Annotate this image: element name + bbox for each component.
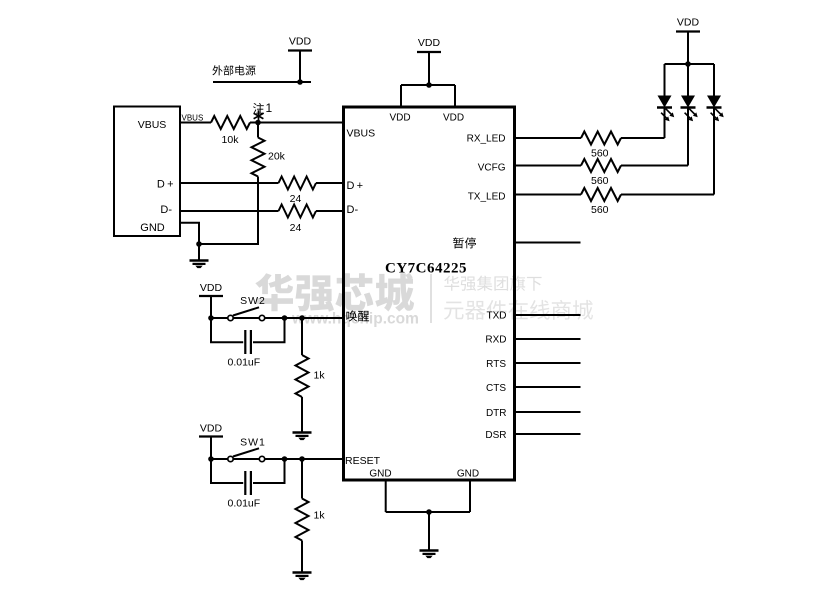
junction VDD/SW1 (208, 456, 214, 462)
note marker 注1 (253, 103, 264, 114)
wire reset net (211, 458, 344, 460)
wire cathode D2 (687, 108, 689, 166)
junction reset/R 1k (299, 456, 305, 462)
label 唤醒 (wake) pin (346, 310, 369, 321)
svg-text:VDD: VDD (200, 282, 223, 294)
svg-text:VDD: VDD (389, 113, 410, 124)
svg-text:VDD: VDD (677, 17, 700, 29)
svg-text:VBUS: VBUS (347, 128, 376, 140)
svg-text:TX_LED: TX_LED (468, 192, 506, 203)
svg-text:D-: D- (160, 204, 172, 216)
resistor R 24 (D+) (279, 177, 317, 190)
wire TXD stub (515, 314, 581, 316)
wire D+ to U1 (316, 182, 344, 184)
resistor R 20k (257, 123, 259, 138)
svg-text:VDD: VDD (289, 36, 312, 48)
LED D2 (681, 96, 695, 108)
wire GND pin 1 (385, 480, 387, 512)
junction ground node (196, 241, 202, 247)
svg-text:RTS: RTS (486, 359, 506, 370)
ground (U1) (420, 549, 439, 551)
svg-text:D-: D- (347, 204, 359, 216)
svg-text:0.01uF: 0.01uF (228, 498, 261, 510)
wire VCFG to R2 (515, 165, 582, 167)
wire wake net (211, 317, 344, 319)
svg-text:24: 24 (290, 222, 302, 234)
svg-text:20k: 20k (268, 151, 286, 163)
junction external rail / VDD (297, 79, 303, 85)
LED D3 (707, 96, 721, 108)
resistor R 560 (TX_LED) (581, 188, 621, 201)
power symbol VDD (SW2) (199, 295, 223, 297)
svg-text:CY7C64225: CY7C64225 (385, 261, 467, 277)
wire TX_LED to R3 (515, 194, 582, 196)
label 外部电源 (external power) (212, 65, 255, 75)
power symbol VDD (external supply) (288, 49, 312, 51)
capacitor C1 0.01uF (211, 318, 243, 342)
ground (SW2) (293, 431, 312, 433)
svg-text:VCFG: VCFG (478, 163, 506, 174)
svg-text:0.01uF: 0.01uF (228, 357, 261, 369)
svg-text:CTS: CTS (486, 383, 506, 394)
resistor R 24 (D-) (279, 205, 317, 218)
wire cathode D1 (664, 108, 666, 139)
wire cathode D3 (713, 108, 715, 195)
svg-text:1k: 1k (314, 510, 326, 522)
ground (J1) (190, 259, 209, 261)
wire RXD stub (515, 338, 581, 340)
wire R2 to D2 (621, 165, 688, 167)
svg-text:VDD: VDD (200, 423, 223, 435)
svg-text:TXD: TXD (487, 310, 507, 321)
svg-text:SW1: SW1 (240, 437, 266, 449)
capacitor C2 0.01uF (211, 459, 243, 483)
connector J1 (USB: VBUS/D+/D-/GND) (114, 107, 180, 237)
wire external power rail (213, 81, 311, 83)
svg-text:D +: D + (347, 180, 364, 192)
svg-text:VDD: VDD (418, 37, 441, 49)
junction GND (426, 509, 432, 515)
svg-text:D +: D + (157, 179, 174, 191)
wire CTS stub (515, 386, 581, 388)
svg-text:RESET: RESET (345, 455, 381, 467)
svg-text:10k: 10k (222, 134, 240, 146)
resistor R 560 (VCFG) (581, 159, 621, 172)
junction SW2 right (282, 315, 288, 321)
resistor R 560 (RX_LED) (581, 132, 621, 145)
svg-text:560: 560 (591, 204, 609, 216)
wire J1 GND (180, 223, 199, 244)
LED D1 (658, 96, 672, 108)
junction wake/R 1k (299, 315, 305, 321)
wire D- to U1 (316, 210, 344, 212)
wire VDD rail to U1 pins (401, 84, 455, 86)
wire anode D3 (713, 64, 715, 96)
wire LED anode rail (665, 63, 715, 65)
wire anode D2 (687, 64, 689, 96)
label 暂停 (suspend) pin (453, 237, 476, 248)
wire 1k to ground (301, 397, 303, 432)
switch SW2 (228, 315, 233, 320)
wire VBUS from J1 to R 10k (180, 122, 211, 124)
svg-text:DSR: DSR (485, 430, 506, 441)
ground (SW1) (293, 571, 312, 573)
power symbol VDD (LEDs) (676, 30, 700, 32)
wire D+ from J1 (180, 182, 279, 184)
IC U1 CY7C64225 (344, 107, 515, 480)
svg-text:560: 560 (591, 148, 609, 160)
wire RX_LED to R1 (515, 137, 582, 139)
junction LED rail (685, 61, 691, 67)
junction VDD/SW2 (208, 315, 214, 321)
svg-text:24: 24 (290, 193, 302, 205)
svg-text:GND: GND (140, 222, 165, 234)
wire GND join (386, 511, 470, 513)
wire 20k to ground rail (199, 177, 258, 245)
resistor R 10k (211, 116, 250, 129)
wire GND pin 2 (469, 480, 471, 512)
svg-text:GND: GND (457, 469, 479, 480)
wire DTR stub (515, 411, 581, 413)
svg-text:1: 1 (266, 101, 273, 115)
svg-text:560: 560 (591, 175, 609, 187)
svg-text:RX_LED: RX_LED (467, 134, 506, 145)
power symbol VDD (U1) (417, 51, 441, 53)
wire VBUS node to U1 (250, 122, 344, 124)
wire R3 to D3 (621, 194, 714, 196)
wire R1 to D1 (621, 137, 665, 139)
resistor R 1k (reset) (301, 459, 303, 499)
junction VDD rail (426, 82, 432, 88)
wire D- from J1 (180, 210, 279, 212)
switch SW1 (228, 456, 233, 461)
wire to ground (198, 244, 200, 260)
wire GND down (428, 512, 430, 550)
wire suspend stub (515, 242, 581, 244)
svg-text:VDD: VDD (443, 113, 464, 124)
svg-text:GND: GND (369, 469, 391, 480)
junction SW1 right (282, 456, 288, 462)
svg-text:VBUS: VBUS (138, 119, 167, 131)
wire RTS stub (515, 362, 581, 364)
wire anode D1 (664, 64, 666, 96)
svg-text:SW2: SW2 (240, 295, 266, 307)
junction VBUS node (255, 120, 261, 126)
power symbol VDD (SW1) (199, 435, 223, 437)
svg-text:DTR: DTR (486, 408, 507, 419)
wire DSR stub (515, 433, 581, 435)
svg-text:VBUS: VBUS (182, 114, 204, 123)
resistor R 1k (wake) (301, 318, 303, 355)
wire 1k to ground (reset) (301, 541, 303, 573)
svg-text:1k: 1k (314, 370, 326, 382)
svg-text:RXD: RXD (485, 334, 506, 345)
